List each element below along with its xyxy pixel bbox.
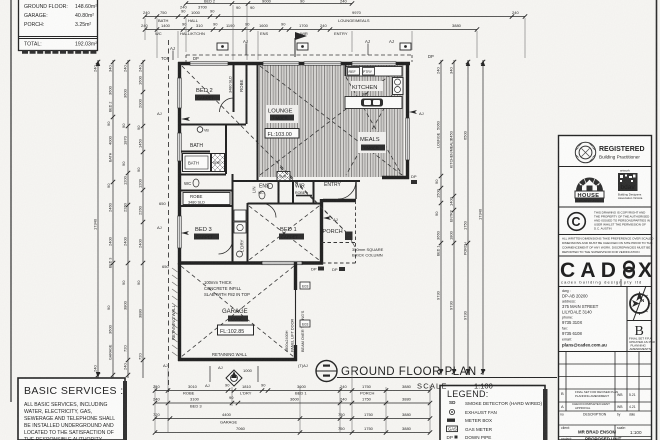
garage door opening [293, 290, 297, 345]
extension lines from plan to top dims [145, 5, 525, 432]
long diagonal bed2 to ens [182, 66, 347, 233]
garage X diagonals [181, 266, 294, 357]
meter box symbol [447, 419, 455, 422]
table shadow [22, 50, 98, 53]
meals south wall to entry [382, 176, 409, 179]
linen [252, 186, 257, 193]
top dimension string 1 (partial, clipped at sheet top) [180, 0, 354, 10]
smoke detector symbol [449, 400, 456, 405]
entry door arc [338, 181, 356, 199]
south wall (bed3/bed1) [178, 261, 323, 264]
exhaust fan symbol [449, 409, 454, 414]
right dimension strings [434, 60, 485, 375]
north compass [630, 286, 651, 321]
bed2 door arc [220, 98, 234, 112]
bed1 door arc [262, 204, 276, 218]
house industry logo [575, 178, 604, 203]
bed1 diagonal X [249, 206, 319, 260]
shower bath [212, 154, 225, 172]
bottom dimension strings [153, 383, 432, 435]
porch column [345, 232, 353, 241]
room label: MEALS [358, 132, 386, 153]
revision table [559, 352, 652, 426]
datum diamond below garage [205, 365, 258, 388]
gas meter symbol [447, 426, 458, 432]
title block (right column) [559, 136, 656, 440]
copyright note [568, 211, 650, 231]
top dimension string 2 [143, 9, 527, 24]
west wall [178, 62, 181, 265]
FL 102.85 [218, 325, 254, 335]
revision B cell [629, 324, 656, 351]
panel lift door notes [285, 310, 305, 352]
house plan [169, 40, 424, 392]
bdav logo [618, 169, 643, 200]
boundary dashed line (west) [168, 40, 170, 392]
retaining wall labels [171, 304, 176, 340]
left dimension strings [93, 60, 146, 378]
meals diagonal X [346, 77, 402, 175]
vanity circle bed2/bath [197, 127, 203, 133]
bed3 robe [183, 193, 230, 205]
eave dashed line + AJ markers [161, 32, 434, 62]
wall oven [393, 78, 404, 95]
laundry [240, 239, 245, 252]
entry/porch west return [323, 199, 356, 202]
areas table [19, 0, 99, 52]
open plan diagonal dashed X [260, 66, 402, 175]
address cell [562, 289, 607, 348]
infill slab note [204, 280, 250, 297]
flag symbol [294, 38, 296, 57]
arrowheads on leftmost dim line [96, 60, 100, 66]
room label: LOUNGE [266, 105, 298, 123]
garage [163, 262, 310, 368]
kitchen island bench + sink [345, 97, 402, 109]
windows (white gaps with thin frames) [178, 62, 409, 265]
top dimension string 3 [141, 22, 479, 37]
top wall [178, 62, 410, 65]
title bubble: ground floor plan [316, 361, 557, 391]
CADEX logo [560, 259, 652, 287]
disclaimer note [562, 237, 654, 255]
sheet left border [10, 0, 12, 402]
registered practitioner logo [575, 142, 644, 162]
outer walls [178, 62, 410, 265]
robe bed2 [229, 76, 245, 93]
interior walls [181, 64, 360, 263]
bath tub [183, 154, 211, 172]
bed3 door arc [219, 240, 233, 254]
aj arrows west wall [157, 111, 190, 269]
retaining wall hatch (west strip) [172, 268, 178, 356]
client / project rows [559, 425, 652, 440]
basic services box [18, 378, 127, 440]
room label: BED 2 [196, 88, 213, 94]
timber floor hatch: open plan lounge/kitchen/meals [259, 64, 404, 177]
diagonal overdraw (scan shows dashes over walls) [280, 167, 347, 233]
FL 103.00 [265, 129, 299, 139]
east wall (kitchen/meals) [406, 62, 409, 179]
aj arrow east [409, 110, 417, 114]
kitchen top bench [346, 67, 402, 77]
sheet right border [656, 0, 658, 440]
bed1 east wall [320, 199, 323, 265]
legend box [440, 386, 548, 440]
room label: KITCHEN [351, 81, 383, 91]
